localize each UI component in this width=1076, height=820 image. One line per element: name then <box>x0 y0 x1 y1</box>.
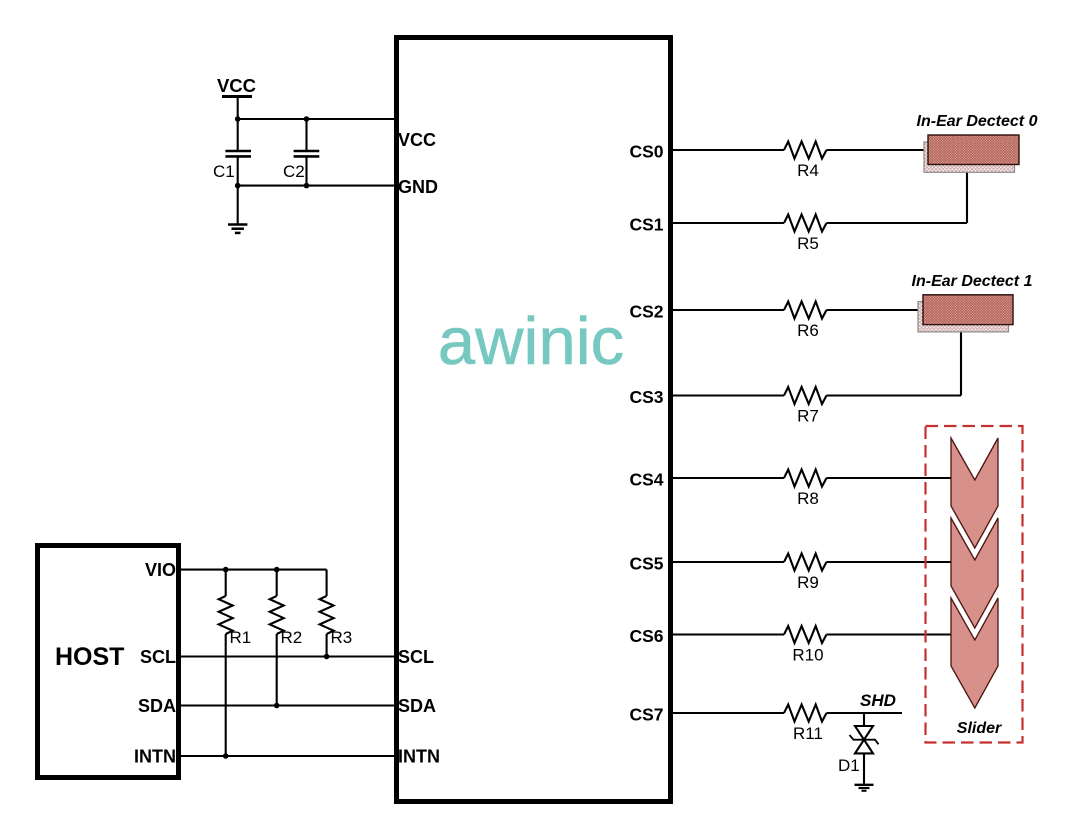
svg-text:R5: R5 <box>797 234 819 253</box>
wire CS4 to load <box>827 477 952 479</box>
svg-text:CS5: CS5 <box>629 554 663 574</box>
svg-text:VCC: VCC <box>217 75 256 96</box>
resistor R5 <box>784 215 827 254</box>
wire CS3 to load <box>827 394 962 396</box>
slider chevron 1 <box>951 438 998 548</box>
svg-text:INTN: INTN <box>398 747 440 767</box>
svg-text:C1: C1 <box>213 162 235 181</box>
resistor R11 <box>784 705 827 744</box>
wire CS0 to load <box>827 149 925 151</box>
resistor R1 <box>219 570 252 756</box>
main IC U1 <box>397 38 671 802</box>
slider chevron 3 <box>951 598 998 708</box>
junction SCL/R3 <box>324 654 330 660</box>
svg-text:R9: R9 <box>797 573 819 592</box>
svg-text:R3: R3 <box>331 628 353 647</box>
svg-text:Slider: Slider <box>957 720 1002 737</box>
svg-text:CS6: CS6 <box>629 626 663 646</box>
junction VCC/C2 <box>304 116 310 122</box>
touch pad In-Ear Dectect 0 <box>917 113 1038 172</box>
svg-text:D1: D1 <box>838 756 860 775</box>
junction GND/C2 <box>304 183 310 189</box>
resistor R6 <box>784 302 827 341</box>
wire CS5 to load <box>827 561 952 563</box>
capacitor C1 <box>213 119 251 186</box>
svg-text:SHD: SHD <box>860 691 896 710</box>
wire pad0 to CS1 <box>966 160 968 223</box>
junction VIO/R2 <box>274 567 280 573</box>
power symbol VCC <box>217 75 256 119</box>
svg-text:R8: R8 <box>797 489 819 508</box>
wire VIO rail <box>179 569 327 571</box>
svg-text:CS1: CS1 <box>629 215 663 235</box>
svg-text:awinic: awinic <box>438 304 624 379</box>
junction SDA/R2 <box>274 703 280 709</box>
svg-text:In-Ear Dectect 1: In-Ear Dectect 1 <box>912 273 1033 290</box>
svg-text:GND: GND <box>398 177 438 197</box>
wire CS5 <box>671 561 784 563</box>
svg-text:VIO: VIO <box>145 560 176 580</box>
wire INTN <box>179 755 396 757</box>
wire pad1 to CS3 <box>960 320 962 396</box>
junction VIO/R1 <box>223 567 229 573</box>
wire CS4 <box>671 477 784 479</box>
resistor R4 <box>784 142 827 181</box>
svg-text:R6: R6 <box>797 321 819 340</box>
wire CS0 <box>671 149 784 151</box>
touch pad In-Ear Dectect 1 <box>912 273 1033 332</box>
diode D1 (TVS) <box>838 713 879 784</box>
resistor R8 <box>784 470 827 509</box>
svg-text:R4: R4 <box>797 161 819 180</box>
svg-text:HOST: HOST <box>55 643 124 671</box>
svg-text:R7: R7 <box>797 407 819 426</box>
svg-text:CS0: CS0 <box>629 142 663 162</box>
wire GND rail <box>238 185 396 187</box>
resistor R10 <box>784 626 827 665</box>
svg-text:SDA: SDA <box>398 696 436 716</box>
HOST block <box>38 546 179 778</box>
wire CS1 to load <box>827 222 968 224</box>
slider outline <box>926 426 1023 743</box>
svg-text:In-Ear Dectect 0: In-Ear Dectect 0 <box>917 113 1038 130</box>
wire CS1 <box>671 222 784 224</box>
svg-text:R10: R10 <box>792 646 823 665</box>
wire CS3 <box>671 394 784 396</box>
resistor R7 <box>784 387 827 426</box>
svg-text:R11: R11 <box>793 724 823 743</box>
wire VCC rail <box>238 118 396 120</box>
svg-text:C2: C2 <box>283 162 305 181</box>
ground symbol (D1) <box>855 785 874 791</box>
svg-text:SDA: SDA <box>138 696 176 716</box>
svg-text:VCC: VCC <box>398 130 436 150</box>
wire CS2 <box>671 309 784 311</box>
svg-text:INTN: INTN <box>134 747 176 767</box>
junction VCC/C1 <box>235 116 241 122</box>
wire CS7 to load <box>827 712 903 714</box>
wire SCL <box>179 655 396 657</box>
junction GND/C1 <box>235 183 241 189</box>
wire SDA <box>179 704 396 706</box>
resistor R3 <box>320 570 353 657</box>
svg-text:SCL: SCL <box>398 647 434 667</box>
ground symbol <box>228 186 247 233</box>
slider chevron 2 <box>951 518 998 628</box>
svg-text:CS7: CS7 <box>629 705 663 725</box>
resistor R9 <box>784 554 827 593</box>
wire CS2 to load <box>827 309 919 311</box>
wire CS6 <box>671 633 784 635</box>
svg-text:CS2: CS2 <box>629 302 663 322</box>
wire CS6 to load <box>827 633 952 635</box>
resistor R2 <box>270 570 303 706</box>
svg-text:R1: R1 <box>230 628 252 647</box>
svg-text:CS3: CS3 <box>629 387 663 407</box>
svg-text:CS4: CS4 <box>629 470 663 490</box>
svg-text:SCL: SCL <box>140 647 176 667</box>
junction INTN/R1 <box>223 753 229 759</box>
capacitor C2 <box>283 119 319 186</box>
svg-text:R2: R2 <box>281 628 303 647</box>
wire CS7 <box>671 712 784 714</box>
